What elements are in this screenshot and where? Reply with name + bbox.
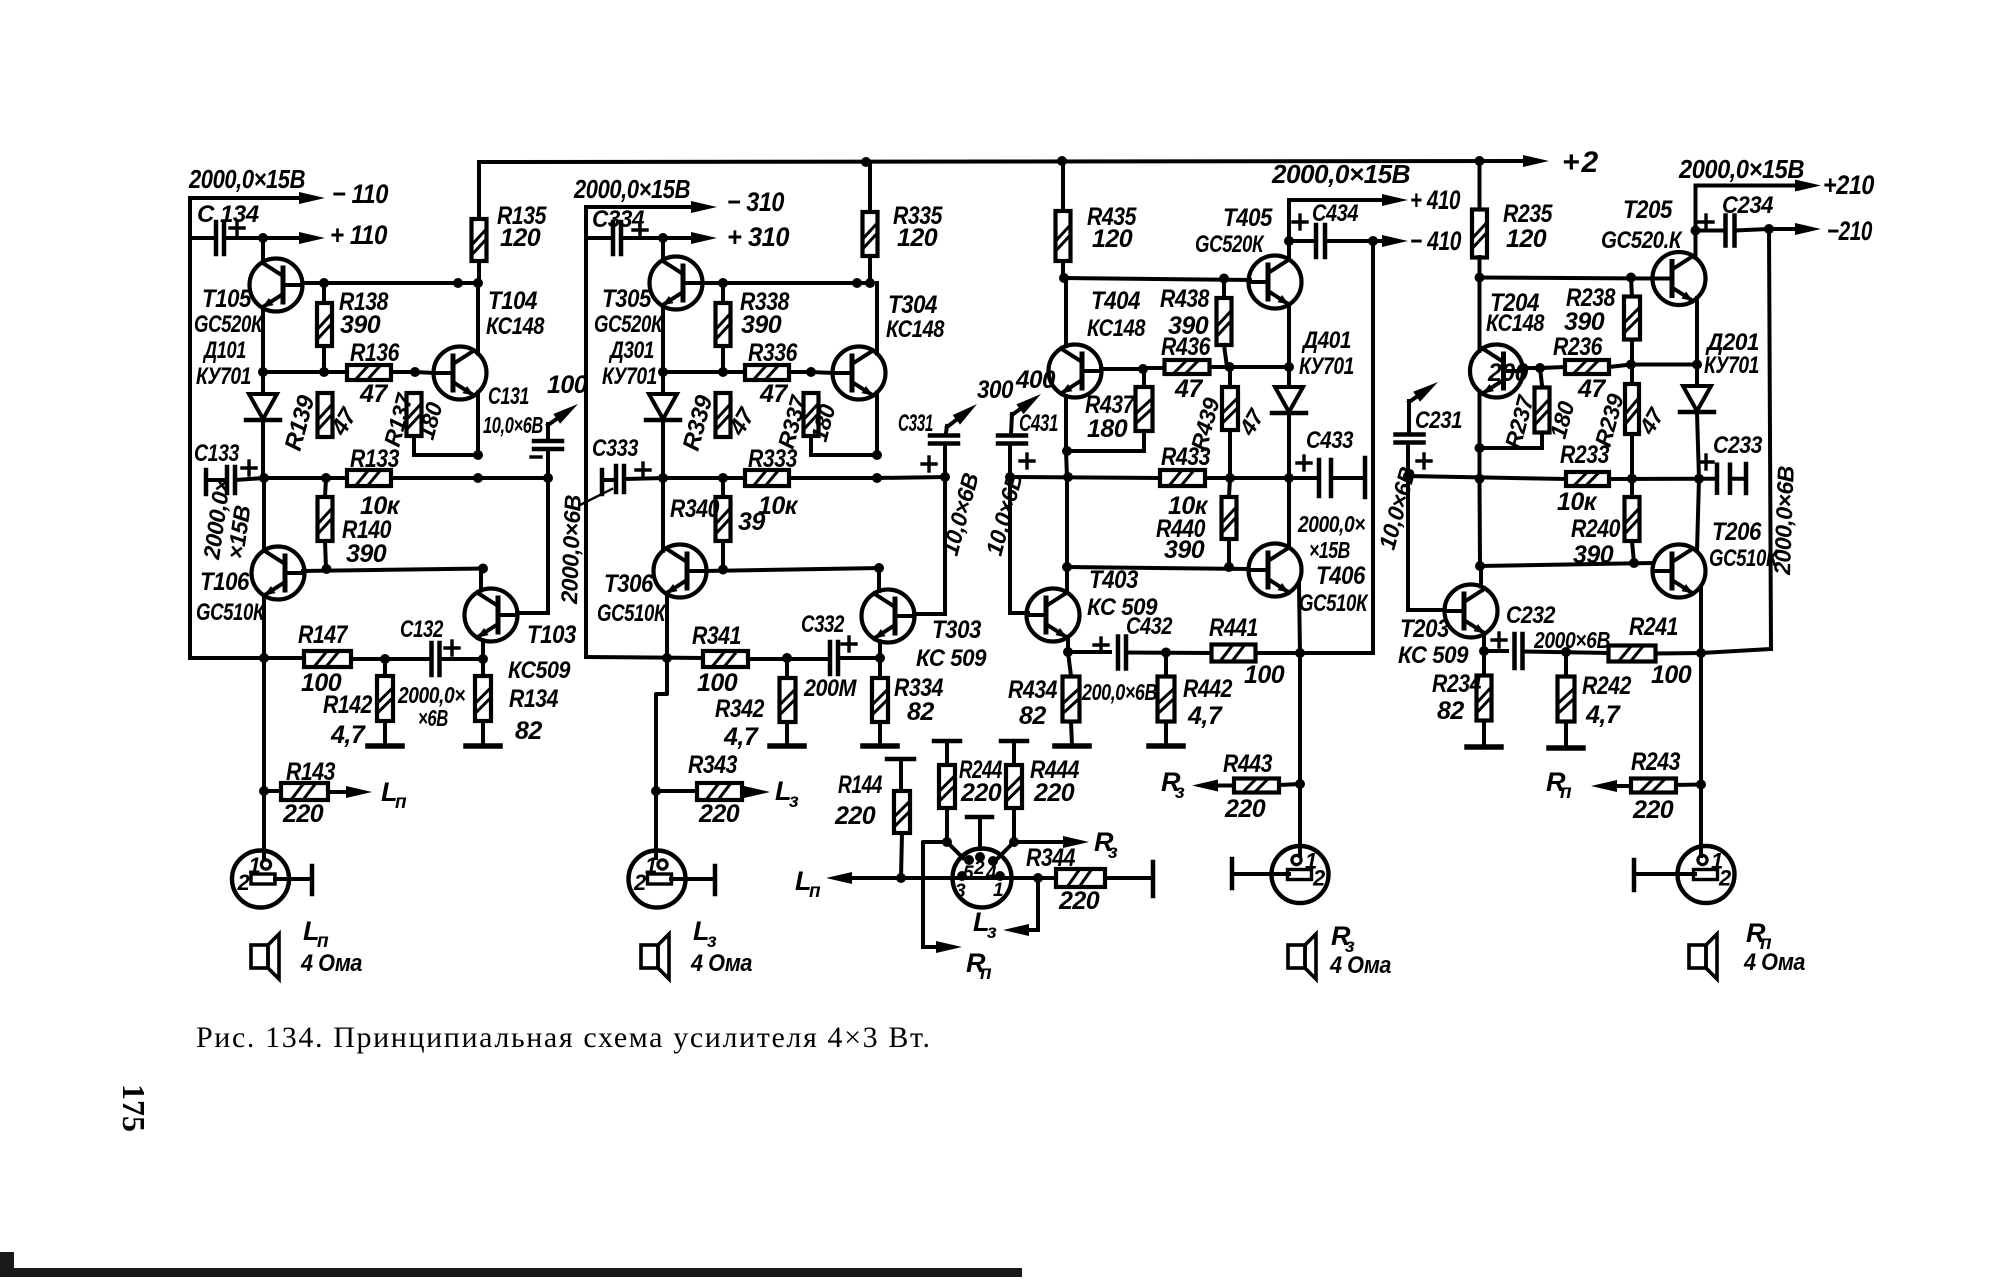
svg-text:С233: С233 [1713, 432, 1763, 459]
node rail-R335 [861, 157, 871, 167]
node n-c131 [543, 473, 553, 483]
wire R244-pin5 diagonal [947, 842, 963, 858]
wire rail478 c [478, 476, 548, 480]
svg-text:4,7: 4,7 [330, 721, 366, 749]
arrow input 400 arrow [1012, 394, 1041, 415]
label 4,7 R442 [1187, 702, 1223, 730]
label -210 [1827, 216, 1872, 246]
wire conn3 wire [671, 877, 714, 881]
wire ch1 left rail [188, 198, 192, 658]
wire T405 emitter [1287, 305, 1291, 368]
svg-text:2: 2 [237, 870, 251, 895]
wire bottom rail b [351, 657, 429, 661]
wire R439 bottom lead [1228, 430, 1232, 478]
label D401 [1301, 327, 1351, 354]
label R233 [1560, 441, 1610, 469]
wire T304 emitter wire [875, 392, 879, 455]
transistor T406 [1249, 544, 1302, 597]
resistor R335 [863, 212, 878, 256]
resistor R136 [347, 365, 391, 380]
wire R342 top lead [785, 658, 789, 679]
svg-text:×15В: ×15В [1309, 537, 1350, 563]
label 390 R338 [741, 311, 782, 339]
wire rail652 ch2 d [1701, 649, 1771, 653]
wire T305 collector [661, 238, 665, 260]
wire driver rail ch3 [705, 568, 879, 571]
wire T406 collector wire [1287, 478, 1291, 546]
wire C434 right lead [1325, 239, 1373, 243]
wire T204 chain a [1478, 448, 1482, 479]
label -310 [727, 187, 784, 217]
label 47 R436 [1174, 375, 1203, 403]
svg-text:10,0×6В: 10,0×6В [483, 412, 543, 438]
wire R137 bottom lead [412, 436, 416, 455]
label C431 lbl [1019, 410, 1058, 437]
node rail-R435 [1057, 156, 1067, 166]
node n-c434 [1284, 236, 1294, 246]
wire R334 top lead [878, 658, 882, 679]
wire D401 anode lead [1287, 367, 1291, 387]
wire emitter rail ch4 [1230, 365, 1289, 369]
capacitor C132 [432, 641, 460, 675]
label Lp spk [303, 916, 329, 952]
label R434 [1008, 676, 1058, 704]
svg-text:R142: R142 [323, 691, 373, 719]
label 2000x6B C232 [1533, 627, 1610, 653]
label 82 R334 [907, 698, 934, 726]
wire R337-emitter wire [811, 453, 877, 457]
arrow L3 arrow [1003, 924, 1038, 936]
label 2000,0x15B ch4 [1271, 159, 1410, 189]
node n-r237top [1535, 363, 1545, 373]
svg-text:з: з [1175, 782, 1185, 803]
label GC510K T306 [597, 600, 667, 627]
svg-text:200: 200 [1487, 359, 1529, 387]
resistor R238 [1624, 297, 1640, 340]
svg-text:120: 120 [500, 224, 541, 252]
label 47 R236 [1577, 375, 1606, 403]
label R438 [1160, 285, 1210, 313]
label R147 [298, 621, 348, 649]
svg-text:КС 509: КС 509 [1398, 642, 1469, 669]
wire R437 bottom lead [1142, 431, 1146, 451]
wire rail652 ch2 b [1524, 652, 1608, 654]
capacitor C334 [613, 222, 647, 254]
label R433 [1161, 443, 1211, 471]
node n-r137top [410, 367, 420, 377]
pin pin2 [975, 852, 985, 862]
wire C433 right lead [1331, 476, 1363, 480]
label C332 [801, 611, 845, 638]
label C432 lbl [1126, 613, 1173, 640]
speaker R3 speaker [1288, 934, 1316, 979]
label 2000,0x15B ch2 [1678, 154, 1804, 184]
label 390 R440 [1164, 536, 1205, 564]
node n-r339top [718, 367, 728, 377]
svg-text:Т206: Т206 [1712, 518, 1762, 546]
wire R440 top lead [1229, 478, 1230, 497]
capacitor C333 [616, 463, 650, 492]
label 100 R147 [301, 669, 342, 697]
wire T404 collector wire [1064, 278, 1068, 346]
wire D101 anode lead [261, 372, 265, 394]
svg-text:R240: R240 [1571, 515, 1621, 543]
terminal C233 terminal [1744, 464, 1749, 493]
wire R340 bottom lead [721, 541, 725, 569]
node n-t204emit [1475, 443, 1485, 453]
wire R444 bottom lead [1012, 808, 1016, 842]
label GC510K T106 [196, 599, 266, 626]
label C133 [194, 440, 240, 467]
svg-text:Рис. 134. Принципиальная схема: Рис. 134. Принципиальная схема усилителя… [196, 1021, 930, 1054]
svg-text:R234: R234 [1432, 670, 1482, 698]
svg-text:GC520.К: GC520.К [1601, 227, 1683, 254]
label 220 R343 [698, 800, 740, 828]
wire R342 bottom lead [785, 722, 789, 745]
resistor R433 [1160, 470, 1205, 486]
label T204 [1490, 289, 1540, 317]
wire R140 bottom lead [325, 541, 326, 569]
ground gnd R142 [368, 743, 402, 749]
wire T304 collector wire [875, 283, 879, 354]
svg-text:100: 100 [697, 669, 738, 697]
label D101 [202, 337, 246, 364]
wire output vertical ch3 [656, 658, 667, 858]
svg-text:R442: R442 [1183, 675, 1233, 703]
svg-text:300: 300 [977, 376, 1014, 404]
label R236 [1553, 333, 1603, 361]
label T203 [1400, 615, 1450, 643]
speaker Lp speaker [251, 934, 279, 979]
label R334 [894, 674, 944, 702]
arrow -110 output [190, 192, 325, 204]
wire R340 top lead [721, 478, 725, 497]
label x15B C433b [0, 0, 1, 1]
node n-d301 [658, 367, 668, 377]
wire R438 top lead [1222, 279, 1226, 300]
svg-text:+ 310: + 310 [727, 222, 789, 252]
node n-d401cath [1284, 473, 1294, 483]
node n-r337top [806, 367, 816, 377]
node n-vert478 ch3 [872, 473, 882, 483]
connector output socket ch4 [1272, 846, 1329, 903]
label R136 [350, 339, 400, 367]
speaker Rp speaker [1689, 934, 1717, 979]
wire R138 top lead [322, 283, 326, 303]
label 390 R138 [340, 311, 381, 339]
wire R435 bottom lead [1061, 261, 1065, 278]
svg-text:4,7: 4,7 [723, 723, 759, 751]
wire C331 top lead [946, 426, 947, 433]
wire T105 emitter [261, 309, 265, 373]
label R341 [692, 622, 741, 650]
svg-text:2000,0×6В: 2000,0×6В [556, 495, 586, 606]
svg-text:+ 410: + 410 [1410, 185, 1460, 215]
resistor R437 [1136, 387, 1153, 431]
node n-r435bot [1059, 273, 1069, 283]
node n-210node [1764, 224, 1774, 234]
node n-t204chain478 [1475, 474, 1485, 484]
wire R435 top lead [1061, 161, 1065, 211]
label Lz out [775, 776, 799, 812]
label 220 R143 [282, 800, 324, 828]
svg-text:КУ701: КУ701 [1704, 352, 1759, 379]
label T103 [527, 621, 577, 649]
svg-text:390: 390 [1573, 541, 1614, 569]
label 220 R344 [1058, 887, 1100, 915]
label KC148 T404 [1087, 315, 1146, 342]
wire rail478 ch3 c [877, 477, 945, 478]
pin pin1 [995, 871, 1005, 881]
label 4 Oma ch3 [690, 950, 752, 977]
resistor R147 [304, 651, 351, 667]
label C333 [592, 435, 639, 462]
svg-text:КУ701: КУ701 [196, 363, 251, 390]
label 39 R340 [738, 508, 765, 536]
node n-r342top [782, 653, 792, 663]
ground gnd R342 [770, 743, 804, 749]
label KC509 T203 [1398, 642, 1469, 669]
transistor T306 [654, 545, 707, 598]
svg-text:390: 390 [1564, 308, 1605, 336]
label T406 [1316, 562, 1366, 590]
wire R235 bottom lead [1478, 257, 1482, 278]
svg-text:− 110: − 110 [332, 179, 388, 209]
svg-text:200М: 200М [803, 675, 857, 702]
label 10k R133 [360, 492, 401, 520]
svg-text:п: п [1560, 782, 1572, 803]
label C334 [592, 206, 644, 233]
label 47 R336 [759, 380, 788, 408]
node n-r343 [651, 786, 661, 796]
label 82 R134 [515, 717, 542, 745]
node n-r438top [1219, 274, 1229, 284]
resistor R135 [472, 219, 487, 261]
wire R335 bottom lead [868, 256, 872, 283]
svg-text:Т205: Т205 [1623, 196, 1673, 224]
resistor R143 [281, 783, 328, 800]
svg-text:з: з [789, 791, 799, 812]
wire R244 bottom lead [945, 808, 949, 842]
resistor R344 [1056, 869, 1105, 887]
svg-text:−210: −210 [1827, 216, 1872, 246]
svg-text:+210: +210 [1823, 170, 1874, 200]
label C234 lbl [1722, 192, 1773, 219]
wire emitter rail ch3 a [663, 370, 745, 374]
ground gnd R442 [1149, 743, 1183, 749]
transistor T305 [650, 257, 703, 310]
svg-text:Т106: Т106 [200, 568, 250, 596]
wire R437-emitter wire [1067, 449, 1144, 453]
node n-d101cath [259, 473, 269, 483]
label R439 rot [1186, 395, 1225, 454]
label 4,7 R342 [723, 723, 759, 751]
label 2000,0x C433 [1297, 511, 1365, 537]
transistor T106 [252, 547, 305, 600]
svg-text:GC510К: GC510К [196, 599, 266, 626]
arrow +310 output [663, 232, 717, 244]
label T405 [1223, 204, 1273, 232]
wire T305 emitter [661, 309, 665, 373]
terminal C333 input terminal [600, 470, 605, 494]
label 220 R243 [1632, 796, 1674, 824]
wire R434 bottom lead [1071, 722, 1072, 745]
pin label 3 [955, 881, 966, 902]
wire T103 emitter wire [481, 640, 485, 659]
resistor R343 [697, 783, 742, 800]
svg-text:Т103: Т103 [527, 621, 577, 649]
svg-text:Т406: Т406 [1316, 562, 1366, 590]
label GC520K T105 [194, 311, 264, 338]
label T304 [888, 291, 938, 319]
pin label 4 [985, 863, 997, 884]
arrow -410 output [1373, 235, 1408, 247]
wire T403 emitter wire [1066, 637, 1070, 652]
label 10k R333 [758, 492, 799, 520]
wire DIN top lead [978, 817, 982, 849]
wire rail653 ch4 a [1068, 650, 1110, 654]
wire T304 base wire [811, 372, 834, 373]
wire conn2 wire [1636, 872, 1695, 876]
resistor R341 [703, 651, 748, 667]
label C434 lbl [1312, 200, 1358, 227]
svg-text:10к: 10к [1557, 488, 1598, 516]
label KC148 T104 [486, 313, 545, 340]
label 2000,0x15B ch1 [188, 164, 305, 194]
node n-t406emit [1295, 648, 1305, 658]
label R338 [740, 288, 790, 316]
label Lz spk [693, 916, 717, 952]
pin label 2 [973, 858, 985, 879]
svg-text:КС509: КС509 [508, 657, 571, 684]
node n-c234 [1691, 226, 1701, 236]
label Rp mid [966, 948, 992, 984]
node n-t403emit [1063, 647, 1073, 657]
svg-text:R333: R333 [748, 445, 798, 473]
label R337 rot [773, 392, 812, 452]
svg-text:GC520К: GC520К [594, 311, 664, 338]
wire R134 top lead [481, 659, 485, 676]
wire C333 leader [580, 489, 612, 505]
arrow Lp output arrow [328, 786, 372, 798]
svg-text:120: 120 [1092, 225, 1133, 253]
arrow Lz output arrow [744, 786, 770, 798]
node rail-R235 [1475, 156, 1485, 166]
svg-text:220: 220 [282, 800, 324, 828]
node n-r239bot [1627, 474, 1637, 484]
resistor R443 [1234, 779, 1279, 793]
ground gnd R334 [863, 743, 897, 749]
node n-l3 [1033, 873, 1043, 883]
label GC510K T406 [1299, 590, 1369, 617]
label -410 [1410, 226, 1461, 256]
label GC520K T205 [1601, 227, 1683, 254]
label 180 R337 [806, 401, 841, 444]
node n-d201 [1692, 360, 1702, 370]
wire R138 bottom lead [322, 346, 326, 372]
wire T206 emitter wire [1699, 587, 1703, 653]
node n-t303emit [875, 653, 885, 663]
node n-r335bot [865, 278, 875, 288]
node n-t104coll [453, 278, 463, 288]
label R3 spk [1331, 921, 1355, 957]
label R3 mid [1094, 827, 1118, 863]
node n-r242top [1561, 647, 1571, 657]
transistor T105 [250, 259, 303, 312]
label R134 [509, 685, 559, 713]
label T303 [932, 616, 982, 644]
wire R135 top lead [477, 162, 481, 219]
label 2000,0x15B ch3 [573, 174, 690, 204]
label T206 [1712, 518, 1762, 546]
svg-text:390: 390 [346, 540, 387, 568]
label 220 R444 [1033, 779, 1075, 807]
wire C134 right lead [224, 236, 263, 240]
terminal conn3 terminal [713, 866, 718, 894]
label R435 [1087, 203, 1137, 231]
resistor R236 [1565, 360, 1609, 374]
wire C231-T203 base wire [1408, 608, 1445, 612]
label 200M C332 [803, 675, 857, 702]
node n-r139top [319, 367, 329, 377]
svg-text:С333: С333 [592, 435, 639, 462]
svg-text:КС 509: КС 509 [916, 645, 987, 672]
wire T206 collector wire [1697, 479, 1699, 551]
resistor R333 [745, 470, 789, 486]
wire T104 collector wire [476, 283, 480, 354]
node n-r442top [1161, 648, 1171, 658]
label 120 R235 [1506, 225, 1547, 253]
svg-text:R344: R344 [1026, 844, 1076, 872]
diode D301 [646, 394, 680, 420]
svg-text:R336: R336 [748, 339, 798, 367]
speaker Lz speaker [641, 934, 669, 979]
wire R238 top lead [1631, 278, 1632, 298]
node n-r138top [319, 278, 329, 288]
resistor R137 [407, 393, 422, 436]
transistor T103 [465, 589, 518, 642]
svg-text:КС148: КС148 [486, 313, 545, 340]
wire R436 right wire [1210, 365, 1230, 369]
svg-text:390: 390 [340, 311, 381, 339]
wire R234 top lead [1482, 651, 1486, 676]
label L3 mid [973, 907, 997, 943]
label 200,0x6B C432 [1081, 679, 1157, 705]
label KC509 T403 [1087, 594, 1158, 621]
svg-text:з: з [1108, 842, 1118, 863]
connector output socket ch3 [629, 851, 686, 908]
resistor R442 [1158, 677, 1175, 722]
svg-text:180: 180 [1087, 415, 1128, 443]
node n-t306emit [662, 653, 672, 663]
label 220 R443 [1224, 795, 1266, 823]
node n-c231 [1403, 471, 1413, 481]
wire T204 collector wire [1478, 278, 1482, 351]
node n-r339bot [718, 473, 728, 483]
resistor R244 [939, 765, 955, 808]
wire conn1 wire [275, 877, 311, 881]
label 100 R441 [1244, 661, 1285, 689]
svg-text:Т104: Т104 [488, 287, 538, 315]
wire C131 bottom lead [546, 449, 550, 478]
arrow +2 supply rail [479, 155, 1549, 167]
label KC148 T204 [1486, 310, 1545, 337]
capacitor C233 [1699, 455, 1730, 493]
wire T403 collector wire [1065, 567, 1069, 593]
wire T104 emitter wire [476, 392, 480, 455]
wire rail652 ch2 a [1484, 649, 1507, 653]
svg-text:Д401: Д401 [1301, 327, 1351, 354]
